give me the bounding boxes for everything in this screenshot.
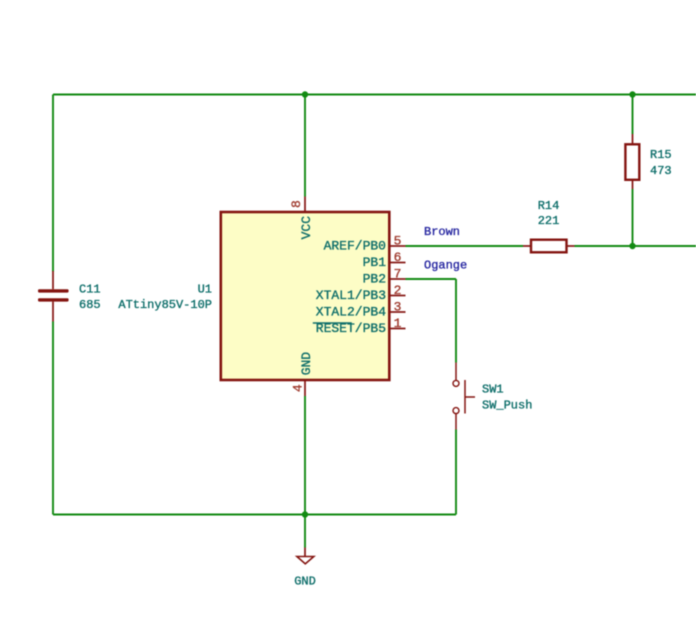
svg-text:Brown: Brown (424, 225, 460, 239)
wire left vertical lower (C11 to bottom rail) (52, 322, 54, 515)
junction VCC/U1 (302, 91, 308, 97)
wire pin5 to R14 (406, 245, 524, 247)
U1 pin name RESET/PB5 with overline (313, 321, 386, 336)
U1 pin 2 stub (390, 295, 406, 297)
ground symbol (297, 548, 314, 564)
svg-text:VCC: VCC (299, 216, 314, 240)
op-amp U1 body ATtiny85V-10P (221, 212, 389, 380)
resistor R14 (523, 240, 575, 253)
U1 pin 6 stub (390, 262, 406, 264)
wire top horizontal VCC rail (53, 94, 696, 96)
wire SW1 bottom to GND rail (455, 430, 457, 515)
svg-text:GND: GND (299, 352, 314, 376)
wire R15 top (632, 95, 634, 135)
svg-text:5: 5 (394, 234, 402, 249)
svg-text:XTAL2/PB4: XTAL2/PB4 (316, 305, 386, 320)
U1 pin 5 stub (390, 245, 406, 247)
svg-text:PB2: PB2 (363, 272, 386, 287)
svg-text:221: 221 (538, 214, 560, 228)
U1 pin 1 stub (390, 328, 406, 330)
svg-text:1: 1 (394, 316, 402, 331)
U1 pin 3 stub (390, 311, 406, 313)
svg-text:SW_Push: SW_Push (482, 399, 532, 413)
wire pin7 horizontal (406, 278, 457, 280)
svg-text:Ogange: Ogange (424, 259, 467, 273)
U1 pin 4 GND stub (304, 380, 306, 396)
svg-text:GND: GND (294, 575, 316, 589)
svg-text:PB1: PB1 (363, 255, 387, 270)
svg-text:4: 4 (291, 384, 306, 392)
svg-text:8: 8 (289, 200, 304, 208)
svg-text:2: 2 (394, 283, 402, 298)
capacitor C11 (38, 271, 69, 322)
junction VCC/R15 (629, 91, 635, 97)
junction R14/R15 (629, 243, 635, 249)
wire left vertical upper (to C11) (52, 95, 54, 272)
wire pin7 down to SW1 (455, 279, 457, 363)
wire R14 to right edge (575, 245, 696, 247)
wire VCC drop to U1 pin 8 (304, 95, 306, 197)
svg-text:685: 685 (79, 298, 101, 312)
svg-text:AREF/PB0: AREF/PB0 (324, 239, 386, 254)
svg-text:ATtiny85V-10P: ATtiny85V-10P (118, 298, 212, 312)
svg-text:SW1: SW1 (482, 383, 504, 397)
svg-text:XTAL1/PB3: XTAL1/PB3 (316, 288, 386, 303)
junction GND rail (302, 511, 308, 517)
resistor R15 (625, 134, 639, 189)
svg-text:3: 3 (394, 300, 402, 315)
wire R15 bottom (632, 189, 634, 246)
svg-text:6: 6 (394, 250, 402, 265)
switch SW1 SW_Push (453, 363, 475, 430)
svg-text:C11: C11 (79, 283, 101, 297)
U1 pin 7 stub (390, 278, 406, 280)
U1 pin 8 VCC stub (304, 197, 306, 213)
wire U1 GND pin 4 to bottom rail (304, 396, 306, 515)
svg-text:U1: U1 (198, 283, 212, 297)
svg-text:R15: R15 (650, 148, 672, 162)
svg-text:7: 7 (394, 267, 402, 282)
wire GND symbol stub (304, 515, 306, 548)
wire bottom horizontal GND rail (53, 514, 456, 516)
svg-text:R14: R14 (538, 199, 560, 213)
svg-text:473: 473 (650, 164, 672, 178)
